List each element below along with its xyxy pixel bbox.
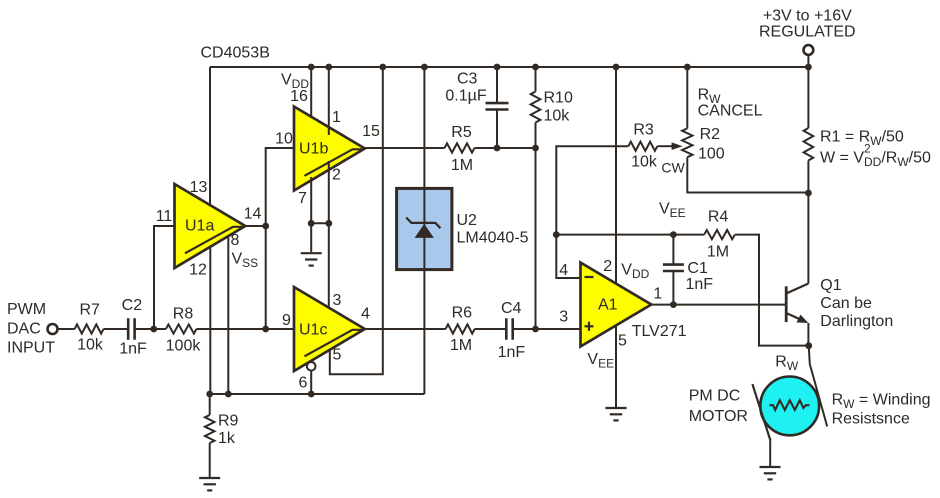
wire U1a pin 8 [227, 237, 229, 395]
svg-text:100k: 100k [166, 338, 202, 355]
svg-text:LM4040-5: LM4040-5 [457, 230, 529, 247]
opamp minus sign [585, 276, 594, 278]
node rail junction x424 [421, 64, 428, 71]
analog switch U1a [175, 184, 246, 268]
transistor Q1 [785, 286, 788, 322]
capacitor C3 [486, 102, 509, 105]
wire A1 output to Q1 base [652, 304, 787, 306]
wire R4 to emitter node [735, 235, 809, 346]
capacitor C4 [505, 318, 508, 340]
svg-text:+3V to +16V: +3V to +16V [763, 8, 852, 25]
svg-text:4: 4 [361, 306, 370, 323]
wire R3 feed [556, 146, 628, 278]
svg-text:R7: R7 [79, 302, 100, 319]
wire U1c pin 5 to VDD rail [330, 67, 383, 374]
svg-text:5: 5 [618, 333, 627, 350]
wire U1b pin 2 to U1c pin 3 [328, 161, 330, 313]
svg-text:Darlington: Darlington [820, 313, 893, 330]
svg-text:R9: R9 [218, 413, 239, 430]
svg-text:MOTOR: MOTOR [689, 408, 748, 425]
node rail junction x311 [308, 64, 315, 71]
wire bottom net [210, 393, 425, 395]
svg-text:2: 2 [332, 167, 341, 184]
motor PM DC [760, 377, 819, 436]
wire R9 bottom lead [209, 443, 211, 478]
wire C1 top lead [672, 235, 674, 265]
node pin9 junction [262, 326, 269, 333]
svg-text:6: 6 [299, 375, 308, 392]
svg-text:C3: C3 [457, 71, 478, 88]
svg-text:1nF: 1nF [119, 341, 147, 358]
wire U2 net [423, 67, 425, 394]
resistor R10 [531, 92, 541, 123]
svg-text:R4: R4 [708, 209, 729, 226]
node rail junction x687 [684, 64, 691, 71]
wire collector [807, 193, 809, 284]
svg-text:R3: R3 [633, 122, 654, 139]
svg-text:15: 15 [362, 123, 380, 140]
reference U2 body [397, 188, 452, 269]
wire U1b pin 16 [310, 67, 312, 118]
svg-text:1nF: 1nF [498, 344, 526, 361]
svg-text:CANCEL: CANCEL [698, 103, 763, 120]
svg-text:1M: 1M [451, 157, 473, 174]
motor left brush [752, 384, 770, 441]
wire rail to R1 [807, 67, 809, 128]
node rail junction x808 [805, 64, 812, 71]
svg-text:12: 12 [189, 262, 207, 279]
potentiometer R2 [682, 128, 692, 157]
svg-text:16: 16 [290, 88, 308, 105]
terminal power input [804, 45, 814, 55]
node C1 bottom junction [670, 301, 677, 308]
capacitor C2 [127, 318, 130, 340]
node pin14 junction [262, 223, 269, 230]
wire R7 to C2 [104, 328, 129, 330]
wire R1 to collector node [807, 161, 809, 194]
zener diode symbol [415, 224, 434, 238]
svg-text:3: 3 [333, 292, 342, 309]
svg-text:Resistsnce: Resistsnce [832, 410, 910, 427]
svg-text:Can be: Can be [820, 295, 872, 312]
node minus net junction [553, 231, 560, 238]
svg-text:10k: 10k [631, 154, 658, 171]
svg-text:A1: A1 [598, 297, 618, 314]
wire terminal to rail [807, 55, 809, 67]
svg-text:10: 10 [275, 131, 293, 148]
resistor R3 [628, 142, 657, 151]
svg-text:C2: C2 [122, 297, 143, 314]
svg-text:100: 100 [698, 146, 725, 163]
wiper arrow into R2 [657, 145, 672, 147]
svg-text:11: 11 [156, 208, 173, 225]
svg-text:CD4053B: CD4053B [201, 45, 270, 62]
node rail junction x497 [494, 64, 501, 71]
ground below U1b pin 7 [301, 252, 322, 254]
node emitter junction [805, 342, 812, 349]
node bottom net pin12 [206, 391, 213, 398]
node rail junction x535 [532, 64, 539, 71]
wire U1a pin 12 [209, 247, 211, 394]
wire pin14 junction down to pin9 line [265, 226, 267, 329]
terminal PWM input [48, 324, 58, 334]
wire C2 to R8 [135, 328, 166, 330]
resistor R8 [166, 324, 197, 333]
inverting bubble pin 6 [307, 362, 316, 371]
resistor R4 [704, 230, 735, 239]
wire pin7-pin2 link [311, 222, 329, 224]
wire emitter to motor brush [809, 346, 828, 427]
node rail junction x616 [613, 64, 620, 71]
node C2-R8 junction [150, 326, 157, 333]
ground below A1 [606, 407, 627, 409]
node rail junction x382 [379, 64, 386, 71]
wire U1b pin 1 [328, 67, 330, 135]
svg-text:PM DC: PM DC [689, 387, 741, 404]
wire R6 to C4 [475, 328, 507, 330]
wire A1 pin 2 supply [615, 67, 617, 284]
resistor R9 [205, 415, 215, 443]
capacitor C1 [663, 263, 684, 266]
svg-text:PWM: PWM [7, 301, 46, 318]
svg-text:DAC: DAC [7, 320, 41, 337]
svg-text:1M: 1M [450, 337, 472, 354]
wire C3 bottom lead [496, 110, 498, 149]
svg-text:U2: U2 [457, 212, 478, 229]
node rail junction x328 [325, 64, 332, 71]
svg-text:3: 3 [559, 309, 568, 326]
svg-text:1nF: 1nF [686, 276, 714, 293]
svg-text:1M: 1M [707, 243, 729, 260]
svg-text:Q1: Q1 [820, 277, 841, 294]
svg-text:C1: C1 [687, 260, 708, 277]
wire minus net horizontal [556, 234, 704, 236]
node pin2 junction [325, 220, 332, 227]
svg-text:R8: R8 [173, 306, 194, 323]
analog switch U1b [294, 107, 365, 191]
wire C3 top lead [496, 67, 498, 103]
node bottom net pin6 [308, 391, 315, 398]
wire motor to ground [769, 441, 771, 467]
wire R8 to U1c pin 9 [196, 328, 294, 330]
wire C4 to A1 plus input [513, 328, 581, 330]
svg-text:R10: R10 [544, 89, 573, 106]
svg-text:2: 2 [603, 258, 612, 275]
node R2 bottom junction [805, 190, 812, 197]
node R10 bottom junction [532, 145, 539, 152]
wire through U2 [423, 188, 425, 269]
svg-text:0.1µF: 0.1µF [445, 88, 486, 105]
ground below R9 [199, 477, 220, 479]
svg-text:13: 13 [190, 179, 208, 196]
opamp plus sign [585, 325, 594, 327]
svg-text:R1 = RW/50: R1 = RW/50 [820, 129, 904, 149]
wire VDD top rail [210, 66, 808, 68]
svg-text:8: 8 [231, 232, 240, 249]
svg-text:U1a: U1a [185, 218, 214, 235]
node bottom net pin8 [225, 391, 232, 398]
svg-text:5: 5 [333, 347, 342, 364]
resistor R6 [446, 324, 475, 333]
svg-text:7: 7 [298, 190, 307, 207]
svg-text:CW: CW [661, 160, 685, 176]
svg-text:U1c: U1c [299, 322, 327, 339]
wire rail drop to U1a pin 13 [209, 67, 211, 206]
wire R2 bottom to R1 node [687, 157, 808, 192]
svg-text:10k: 10k [544, 107, 571, 124]
wire U1a pin 14 output [245, 225, 265, 227]
svg-text:R5: R5 [451, 124, 472, 141]
motor winding resistance zigzag [770, 400, 810, 410]
wire A1 pin 5 supply [615, 326, 617, 409]
svg-text:INPUT: INPUT [7, 340, 55, 357]
svg-text:1k: 1k [218, 430, 236, 447]
svg-text:REGULATED: REGULATED [759, 24, 856, 41]
wire U1c pin 6 [310, 371, 312, 394]
resistor R7 [75, 324, 104, 333]
svg-text:1: 1 [653, 286, 662, 303]
wire R10 top lead [535, 67, 537, 92]
node pin7 junction [308, 220, 315, 227]
wire R2 top lead [686, 67, 688, 128]
node C3 bottom junction [494, 145, 501, 152]
op-amp A1 [581, 263, 652, 347]
wire U1b pin 15 to R5 [365, 147, 445, 149]
svg-text:10k: 10k [77, 337, 104, 354]
svg-text:R6: R6 [452, 305, 473, 322]
resistor R5 [445, 143, 475, 152]
ground below motor [760, 466, 781, 468]
svg-text:4: 4 [559, 262, 568, 279]
resistor R1 [804, 128, 814, 161]
svg-text:TLV271: TLV271 [632, 323, 687, 340]
svg-text:9: 9 [282, 312, 291, 329]
wire input to R7 [57, 328, 75, 330]
wire R10 bottom lead [535, 123, 537, 149]
wire R10 node down to A1 plus node [535, 148, 537, 329]
analog switch U1c [294, 287, 365, 371]
svg-text:C4: C4 [501, 300, 522, 317]
wire U1c pin 4 to R6 [365, 328, 446, 330]
wire U1b pin 7 [310, 177, 312, 252]
wire R9 top lead [209, 394, 211, 415]
wire U1a pin 11 [154, 226, 175, 329]
wire C1 bottom lead [672, 271, 674, 305]
node C1 top junction [670, 231, 677, 238]
wire pin14 to U1b pin10 [266, 148, 294, 226]
node A1 plus junction [532, 326, 539, 333]
svg-text:1: 1 [332, 109, 341, 126]
wire emitter [807, 323, 809, 346]
svg-text:14: 14 [244, 206, 262, 223]
svg-text:R2: R2 [700, 126, 721, 143]
wire R5 to junctions [475, 147, 536, 149]
svg-text:U1b: U1b [299, 141, 328, 158]
